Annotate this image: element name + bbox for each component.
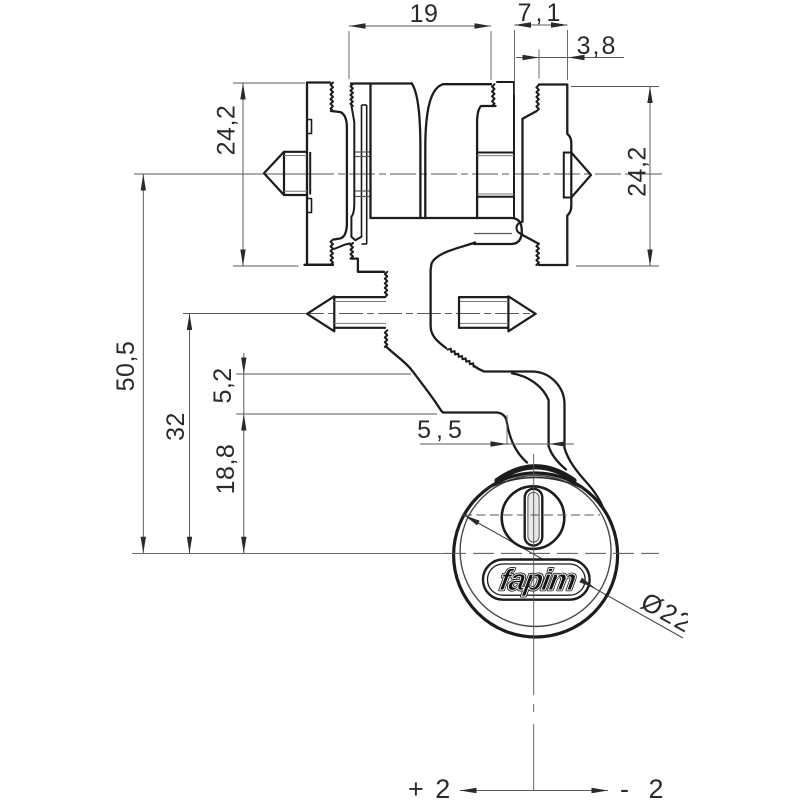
dimension 19 (top) — [348, 31, 350, 79]
dimension 5,5 — [420, 443, 574, 445]
gearbox body: valley right wall and bridge top — [425, 84, 491, 218]
clip of diameter text at image edge — [688, 585, 748, 645]
gearbox body: left narrow column — [351, 82, 412, 84]
gearbox body: right edge plate x=514 — [497, 82, 514, 218]
dimension diameter 22 arrows — [464, 515, 480, 525]
svg-text:32: 32 — [162, 412, 190, 441]
dimension 5,2 — [243, 353, 245, 553]
svg-text:19: 19 — [410, 0, 439, 28]
arm left knurl column (upper) — [385, 272, 388, 297]
fapim logo text — [497, 564, 578, 597]
svg-text:fapim: fapim — [497, 564, 578, 597]
svg-text:50,5: 50,5 — [112, 341, 140, 392]
middle-left pointed pin — [307, 296, 334, 331]
diameter leader line (under plaque) — [464, 515, 683, 638]
cylinder horizontal axis line — [132, 552, 445, 554]
arm neck left curve — [497, 413, 527, 463]
svg-text:5,5: 5,5 — [417, 416, 467, 444]
cylinder cap lower arc — [486, 478, 584, 490]
gearbox body: right knurled edge — [492, 84, 495, 106]
left pin socket end cap — [309, 152, 311, 195]
gearbox body: left shoulder with funnel valley — [371, 84, 421, 219]
dimension 7,1 (top right) — [514, 30, 516, 95]
gearbox body: inner channel verticals — [361, 105, 363, 237]
svg-text:3,8: 3,8 — [577, 32, 618, 60]
svg-text:+ 2: + 2 — [408, 774, 452, 800]
dimension 24,2 (left) — [233, 82, 305, 84]
middle-right pointed pin — [508, 296, 535, 331]
dimension 24,2 (right) — [571, 86, 659, 88]
dimension 50,5 (left chain) — [142, 174, 144, 553]
fapim logo plaque inner border — [488, 564, 586, 595]
gearbox body: pin pass-through lines — [477, 152, 514, 154]
svg-text:18,8: 18,8 — [212, 444, 240, 495]
left rail edge notch lower — [307, 199, 312, 213]
gearbox body: S-curve into arm upper edge — [431, 243, 475, 349]
gearbox body: hidden pin lines in channel — [355, 151, 371, 153]
key circle horizontal dash line — [463, 514, 600, 516]
cylinder vertical centerline — [533, 454, 535, 695]
right pointed pin cone — [571, 153, 591, 198]
key slot outer — [525, 489, 543, 546]
arm upper knurled diagonal — [448, 349, 474, 367]
arm lower S-edge — [387, 347, 497, 413]
arm top face and outer bend — [474, 366, 604, 510]
svg-text:5,2: 5,2 — [209, 367, 237, 403]
left rail profile outline — [307, 81, 330, 83]
dimension 3,8 — [516, 57, 624, 59]
dimension 18,8 — [241, 537, 246, 554]
node top-axis centerline y=174 — [134, 173, 308, 175]
svg-text:24,2: 24,2 — [624, 146, 652, 197]
left rail edge notch upper — [307, 120, 312, 134]
dimension diameter 22 text — [636, 586, 699, 639]
cylinder inner circle — [460, 476, 611, 627]
right rail notch bulge — [517, 222, 523, 234]
cylinder outer circle — [454, 473, 618, 637]
left pointed pin cone — [264, 152, 284, 195]
arm inner face and inner bend — [512, 373, 566, 469]
right rail profile outline — [539, 85, 572, 153]
arm left knurl column (lower) — [385, 330, 388, 347]
gearbox body: bottom edge and right tab — [425, 218, 522, 244]
adjustment line bottom — [460, 790, 608, 792]
bracket bridge under left rail — [305, 264, 332, 266]
dimension 32 — [189, 314, 191, 554]
svg-text:24,2: 24,2 — [213, 105, 241, 156]
node middle-axis centerline y=313.5 — [183, 313, 300, 315]
key slot inner — [528, 492, 539, 542]
cylinder cap heavy arc — [497, 467, 574, 481]
key cylinder circle — [502, 486, 565, 549]
left pin shaft — [284, 152, 307, 195]
svg-text:- 2: - 2 — [620, 774, 670, 800]
right pin boss — [563, 153, 565, 198]
svg-text:7,1: 7,1 — [518, 0, 565, 27]
fapim logo plaque outer — [483, 560, 590, 600]
